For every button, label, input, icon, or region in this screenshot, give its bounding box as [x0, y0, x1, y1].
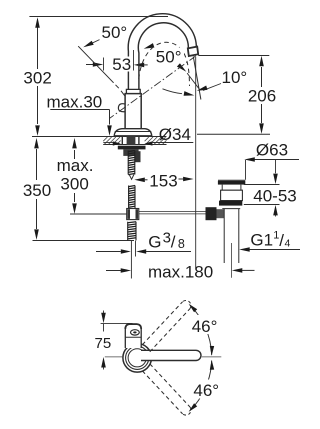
hose end reference line — [33, 240, 135, 242]
plan swivel rings — [123, 344, 152, 373]
drain flange bar — [218, 181, 245, 185]
leader G 3/8 left — [96, 251, 121, 253]
cross fitting — [127, 209, 139, 220]
stud tip — [129, 175, 134, 180]
leader 50 deg lever — [88, 40, 100, 46]
drain flange top — [218, 179, 245, 181]
deck hatching right — [145, 137, 149, 141]
swing arc upper — [190, 305, 212, 355]
svg-text:4: 4 — [285, 237, 291, 249]
dimension max.180 — [106, 270, 121, 272]
svg-text:153: 153 — [149, 171, 177, 190]
deck hatching left — [103, 137, 107, 141]
deck bottom line — [103, 144, 166, 146]
plan handle oval — [131, 330, 140, 335]
dimension 40-53 vertical — [275, 160, 277, 174]
dimension 302 vertical line — [37, 19, 39, 69]
leader Ø63 — [252, 159, 299, 161]
deck line left — [32, 136, 167, 138]
dimension 206 vertical line — [261, 67, 263, 87]
swivel angle arc — [163, 89, 183, 94]
plan dashed capsule upper — [150, 309, 190, 352]
drain body — [221, 190, 243, 200]
plan handle body — [125, 324, 141, 348]
dimension 75 — [103, 311, 105, 314]
drain neck — [221, 185, 223, 191]
aerator — [188, 47, 198, 56]
leader G1 1/4 — [249, 249, 301, 251]
mounting shank — [121, 136, 123, 145]
horizontal pop-up rod — [139, 210, 206, 212]
base flange — [114, 129, 152, 136]
water stream vertical line — [195, 57, 197, 269]
dimension 75 extension line — [101, 322, 133, 324]
dimension 153 arrows — [134, 178, 145, 183]
plan spout capsule — [141, 350, 201, 360]
svg-text:8: 8 — [178, 237, 185, 251]
svg-text:3: 3 — [163, 229, 171, 246]
rod level reference line — [70, 213, 127, 215]
gooseneck spout inner — [138, 23, 188, 89]
drain pipe top band — [222, 208, 240, 210]
plan centerline — [105, 356, 123, 358]
rotated spout dashed arc — [139, 42, 190, 86]
outlet height extension line — [198, 55, 269, 57]
dimension 53 arrows — [86, 64, 94, 66]
swivel dash-dot line — [110, 56, 197, 119]
faucet body — [125, 94, 141, 129]
lever open position line — [78, 46, 113, 83]
pop-up rod upper thread — [128, 186, 130, 209]
mounting nut — [123, 149, 138, 156]
leader G 3/8 right — [145, 251, 192, 253]
svg-text:53: 53 — [112, 55, 131, 74]
plan dashed capsule lower — [142, 371, 182, 414]
svg-text:max.: max. — [57, 156, 94, 175]
dimension 350 vertical line — [36, 149, 38, 180]
dimension 53 extension lines — [103, 58, 105, 71]
dimension 40-53 extension lines — [244, 184, 280, 186]
ball joint block — [206, 207, 217, 220]
label 50 deg swivel — [154, 48, 184, 64]
top reference line (spout apex) — [29, 16, 168, 18]
deck line right extension — [197, 133, 270, 135]
drain tailpipe — [223, 209, 225, 263]
svg-text:350: 350 — [23, 181, 51, 200]
plan handle divider — [125, 336, 141, 338]
supply nipple thread — [127, 222, 129, 241]
dimension max.300 vertical line — [74, 150, 76, 159]
side spacer block — [135, 151, 141, 162]
svg-text:46°: 46° — [192, 317, 218, 336]
threaded stud — [127, 151, 129, 175]
dimension Ø34 arrows — [103, 142, 113, 144]
svg-text:46°: 46° — [193, 381, 219, 400]
plan handle top edge — [125, 324, 141, 329]
svg-text:300: 300 — [60, 175, 88, 194]
svg-text:Ø63: Ø63 — [256, 140, 288, 159]
label 46 deg upper — [191, 315, 220, 334]
flange edge extension — [245, 160, 247, 180]
svg-text:/: / — [171, 232, 176, 251]
label 46 deg lower — [192, 380, 219, 399]
swivel arrow left — [144, 43, 155, 49]
svg-text:G1: G1 — [250, 230, 273, 249]
swivel angle arc arrow — [184, 91, 195, 96]
swivel arrow right — [177, 63, 186, 72]
svg-text:302: 302 — [23, 69, 51, 88]
svg-text:206: 206 — [248, 87, 276, 106]
svg-text:max.180: max.180 — [148, 262, 213, 281]
svg-text:10°: 10° — [222, 68, 248, 87]
washer under deck — [118, 146, 146, 150]
svg-text:50°: 50° — [156, 47, 182, 66]
faucet body cap — [126, 89, 140, 93]
dimension label 53 — [112, 57, 133, 72]
dimension max.30 leader — [50, 109, 109, 111]
gooseneck spout outer — [128, 14, 196, 89]
swing arc lower — [190, 361, 212, 411]
lever closed hook — [118, 104, 125, 112]
leader 10 deg — [203, 84, 221, 91]
svg-text:G: G — [148, 232, 161, 251]
supply pipe — [130, 241, 132, 279]
drain locknut ring — [219, 201, 242, 206]
svg-text:40-53: 40-53 — [253, 186, 296, 205]
svg-text:75: 75 — [95, 335, 112, 352]
water stream angled line — [193, 57, 201, 100]
svg-text:max.30: max.30 — [47, 92, 103, 111]
svg-text:50°: 50° — [102, 23, 128, 42]
svg-text:Ø34: Ø34 — [159, 125, 191, 144]
